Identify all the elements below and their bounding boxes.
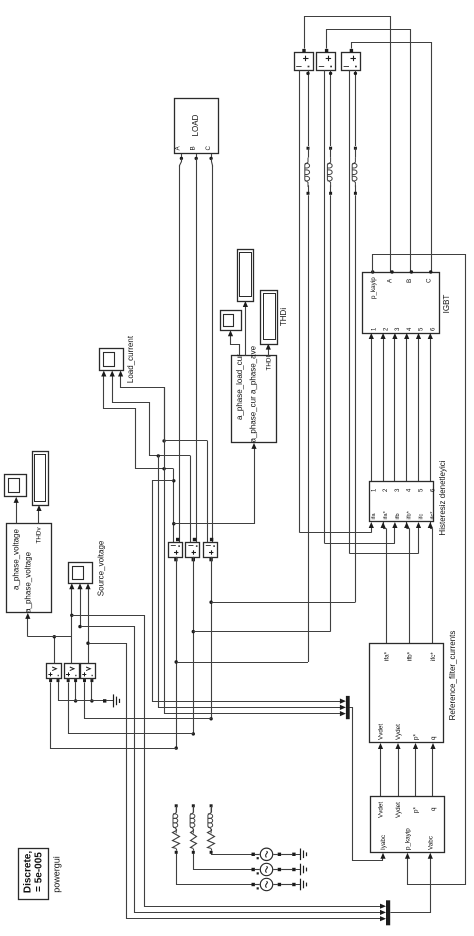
wire IGBT.B to CS_b signal input [327,30,411,273]
wire Va measurement output [54,637,56,664]
wire RL_c to AC source c [212,854,252,855]
wire Vb signal to Vabc mux [81,627,381,913]
wire Va signal to Vabc mux (left run) [72,616,381,907]
wires reference currents ifa* ifb* ifc* to controller [386,529,388,644]
svg-text:Load_current: Load_current [126,335,135,383]
scope Source_voltage [69,563,93,584]
controlled current source CS_a [295,53,314,71]
svg-text:a_phase_voltage: a_phase_voltage [12,529,21,590]
voltage measurement Vb [65,664,80,679]
wires power block outputs to reference block [380,748,382,796]
wire to THDi display [268,349,270,356]
source impedance RL phase A [175,804,178,807]
svg-text:Histeresiz denetleyici: Histeresiz denetleyici [438,460,447,535]
wire Ia to Load_current scope [104,376,174,469]
svg-text:p_kayip: p_kayip [405,828,412,850]
wire Im_b signal line [190,456,192,542]
AC voltage source phase C with ground [252,853,255,856]
wire Ic to Iabc mux [165,388,341,714]
wire IGBT.A to CS_a signal input [305,17,391,273]
svg-text:Vabc: Vabc [427,836,434,850]
wire measured filter current ifc to controller [350,553,419,555]
svg-text:Discrete,: Discrete, [23,851,34,893]
display THDi [261,291,278,345]
scope Load_current [100,349,124,371]
scope (load current average) [221,311,242,331]
wire Ib to Load_current scope [113,376,191,456]
wire IGBT.C to CS_c signal input [352,43,432,273]
svg-text:Reference_filter_currents: Reference_filter_currents [448,631,457,721]
block IGBT inverter [363,273,440,334]
svg-text:ifa*: ifa* [383,510,389,519]
svg-text:THDI: THDI [265,356,272,371]
display THDv [33,452,49,506]
wire LOAD.C to phase C line [211,154,213,158]
wires controller outputs 1-6 to IGBT gates [371,338,373,482]
wire Ic to Load_current scope [121,376,208,441]
wire Im_a signal line [173,469,175,542]
AC voltage source phase A with ground [252,883,255,886]
svg-text:a_phase_voltage: a_phase_voltage [24,551,33,612]
svg-text:THDv: THDv [36,527,43,544]
wire RL_a to AC source a [177,854,252,885]
block a_phase voltage analyser [7,524,52,613]
svg-text:ifc*: ifc* [430,652,437,661]
svg-text:q: q [430,736,437,740]
wire Vc measurement to scope port3 [88,588,90,663]
wire phase B (below Im_b) [193,557,195,734]
current measurement block Im_b (phase B) [186,543,200,558]
svg-text:Source_voltage: Source_voltage [97,540,106,596]
source impedance RL phase C [210,804,213,807]
wire IGBT p_kayip loss feedback [373,255,466,885]
svg-text:q: q [430,807,437,811]
mux Iabc (load currents) [346,696,350,719]
block a_phase load current analyser [232,356,277,443]
block power calculation (p-q) [371,797,445,853]
svg-text:p_kayip: p_kayip [370,277,377,299]
svg-text:ifc*: ifc* [430,511,436,520]
svg-text:IGBT: IGBT [442,295,451,314]
wire measured filter current ifb to controller [325,543,395,545]
wire inductor La to phase A junction [308,195,310,662]
wire v- terminals to ground bus [58,682,60,701]
svg-text:C: C [425,278,432,283]
wire CS_b terminals [330,70,332,146]
svg-text:LOAD: LOAD [191,114,200,136]
current measurement block Im_a (phase A) [169,543,183,558]
wire Va joins scope line [54,636,72,638]
svg-text:ifb*: ifb* [407,651,414,661]
svg-text:Vvdet: Vvdet [378,802,385,818]
svg-text:Vydet: Vydet [395,802,402,818]
svg-text:a_phase_cur a_phase_ave: a_phase_cur a_phase_ave [249,345,258,442]
filter inductor Lb [329,147,332,150]
wire Ib to Iabc mux [157,454,160,457]
ground (measurement reference) [103,699,106,702]
wire inductor Lb to phase B junction [330,195,332,631]
controlled current source CS_c [342,53,361,71]
mux Vabc (source voltages) [386,900,390,925]
wire to cur scope [231,336,240,356]
wire Vb measurement to Source_voltage scope port1 [71,588,73,663]
wire to THDv display [38,510,40,524]
voltage measurement Va [47,664,62,679]
filter inductor La (phase A injection) [307,147,310,150]
wire to voltage scope [16,502,18,524]
display a_phase_cur_ave [238,250,254,302]
AC voltage source phase B with ground [252,868,255,871]
wire measured filter current ifa to controller [300,532,372,534]
svg-text:B: B [406,279,413,283]
svg-text:Iyabc: Iyabc [380,835,387,850]
wire scope port2 riser [80,588,82,626]
wire phase C (below Im_c) [211,557,213,719]
block Reference_filter_currents [370,644,444,743]
wire Iabc mux to power block Iyabc [350,708,383,861]
wire tap to a_phase_load_cur analyser [174,448,255,524]
block Histeresiz denetleyici (hysteresis controller) [370,482,434,522]
wire phase A (below Im_a) with junctions [176,557,178,748]
controlled current source CS_b [317,53,336,71]
svg-text:ifa: ifa [371,513,377,520]
wire LOAD.A to phase A line [181,154,183,158]
svg-text:Vydet: Vydet [395,724,402,740]
svg-text:ifa*: ifa* [383,651,390,661]
svg-text:powergui: powergui [51,856,61,893]
wire RL_b to AC source b [194,854,252,870]
wire CS_a terminals [308,70,310,146]
wire LOAD.B to phase B line [196,154,198,158]
wire to a_phase_cur display [245,306,247,356]
wire Vc signal to Vabc mux [89,644,381,919]
svg-text:p*: p* [413,733,420,740]
block powergui (Discrete 5e-005) [19,849,49,900]
voltage measurement Vc [81,664,96,679]
svg-text:B: B [190,146,197,150]
svg-text:ifb*: ifb* [407,510,413,519]
svg-text:Vvdet: Vvdet [378,724,385,740]
source impedance RL phase B [192,804,195,807]
scope a_phase_voltage [5,475,27,497]
wire Im_c signal line [207,441,209,542]
wire Ia to Iabc mux (via left column) [153,481,341,702]
block LOAD (three-phase load) [175,99,219,154]
svg-text:a_phase_load_cur: a_phase_load_cur [235,354,244,420]
current measurement block Im_c (phase C) [204,543,218,558]
svg-text:= 5e-005: = 5e-005 [33,852,44,892]
svg-text:ifb: ifb [395,513,401,519]
svg-text:p*: p* [413,806,420,813]
wire Va to analyser input [28,636,55,638]
svg-text:C: C [205,146,212,151]
svg-text:THDi: THDi [279,308,288,326]
svg-text:ifc: ifc [418,514,424,520]
filter inductor Lc [354,147,357,150]
wire v+ taps to phase lines [51,683,177,749]
wire inductor Lc to phase C junction [355,195,357,602]
wire CS_c terminals [355,70,357,146]
wire Vabc mux to power block Vabc [391,858,431,913]
